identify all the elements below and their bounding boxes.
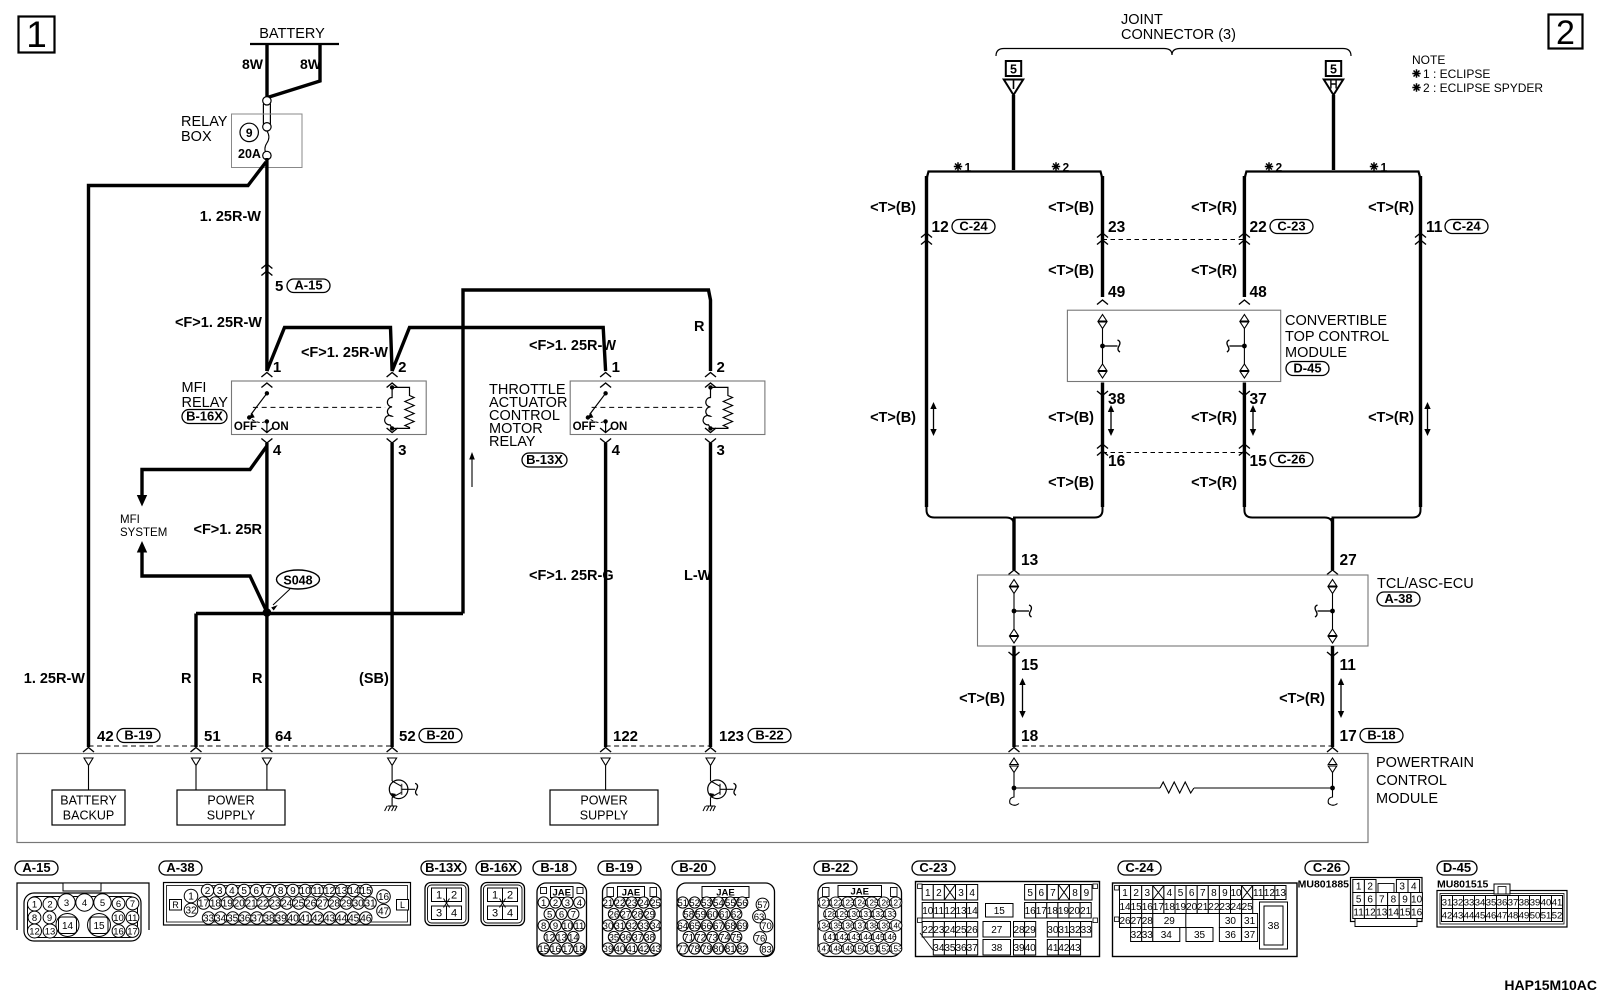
svg-text:C-24: C-24 xyxy=(1125,860,1154,875)
svg-text:25: 25 xyxy=(1242,902,1254,913)
svg-text:52: 52 xyxy=(1552,910,1563,921)
svg-text:5: 5 xyxy=(1010,63,1017,77)
svg-text:3: 3 xyxy=(1144,888,1150,899)
svg-text:2 : ECLIPSE SPYDER: 2 : ECLIPSE SPYDER xyxy=(1423,81,1543,95)
connector pill D-45 (strip) xyxy=(1437,861,1477,875)
wire pin 52 drop (MFI pin3) xyxy=(390,443,393,747)
svg-text:41: 41 xyxy=(1047,943,1059,954)
svg-text:<T>(R): <T>(R) xyxy=(1368,200,1414,216)
svg-text:46: 46 xyxy=(360,914,372,925)
svg-text:<T>(B): <T>(B) xyxy=(1048,410,1094,426)
svg-text:38: 38 xyxy=(263,914,275,925)
svg-text:L-W: L-W xyxy=(684,568,712,584)
svg-text:40: 40 xyxy=(1541,897,1552,908)
svg-text:13: 13 xyxy=(955,906,967,917)
wire main feed fuse to MFI relay pin 1 xyxy=(265,158,268,371)
svg-text:17: 17 xyxy=(562,944,573,955)
svg-text:3: 3 xyxy=(436,908,442,920)
svg-text:4: 4 xyxy=(612,442,621,459)
module terminal triangle x=88.5 xyxy=(84,758,93,766)
svg-text:<F>1. 25R-W: <F>1. 25R-W xyxy=(301,345,388,361)
svg-text:10: 10 xyxy=(1411,895,1423,906)
terminal mark pin x=710.5 xyxy=(705,748,716,753)
svg-text:2: 2 xyxy=(936,888,942,899)
svg-text:14: 14 xyxy=(348,886,360,897)
svg-text:2: 2 xyxy=(1276,161,1283,175)
svg-text:24: 24 xyxy=(638,898,649,909)
svg-text:4: 4 xyxy=(577,898,582,909)
svg-text:77: 77 xyxy=(677,944,688,955)
svg-text:RELAY: RELAY xyxy=(181,114,228,130)
svg-text:26: 26 xyxy=(967,925,979,936)
svg-text:33: 33 xyxy=(638,921,649,932)
TCL internal left xyxy=(1010,580,1019,587)
connector pill D-45 xyxy=(1286,362,1329,376)
svg-text:<F>1. 25R-G: <F>1. 25R-G xyxy=(529,568,614,584)
svg-text:6: 6 xyxy=(254,886,260,897)
svg-text:41: 41 xyxy=(1552,897,1563,908)
svg-text:8W: 8W xyxy=(242,56,264,72)
connector B-22 pinout xyxy=(818,883,902,957)
svg-text:R: R xyxy=(694,319,705,335)
svg-text:36: 36 xyxy=(1225,930,1237,941)
connector dashed line B-22 xyxy=(606,745,711,747)
svg-text:17: 17 xyxy=(1153,902,1165,913)
terminal mark pin x=196 xyxy=(191,748,202,753)
svg-text:BATTERY: BATTERY xyxy=(60,794,117,808)
svg-text:9: 9 xyxy=(1402,895,1408,906)
svg-text:5: 5 xyxy=(275,278,283,295)
svg-text:8: 8 xyxy=(278,886,284,897)
svg-text:2: 2 xyxy=(717,359,725,376)
sheet number 1 box xyxy=(19,17,55,53)
svg-text:13: 13 xyxy=(45,926,56,937)
svg-text:ON: ON xyxy=(271,421,288,433)
svg-text:67: 67 xyxy=(713,921,724,932)
svg-text:3: 3 xyxy=(492,908,498,920)
PCM terminal triangles x=1014.0 xyxy=(1010,758,1019,765)
svg-text:1: 1 xyxy=(541,898,546,909)
joint connector stub left xyxy=(1012,95,1015,170)
module terminal mark pin49 xyxy=(1097,300,1108,305)
svg-text:SYSTEM: SYSTEM xyxy=(120,527,167,539)
svg-text:MU801515: MU801515 xyxy=(1437,879,1489,891)
wire pin 123 drop (throttle pin3) xyxy=(709,443,712,747)
svg-text:53: 53 xyxy=(701,898,712,909)
svg-text:57: 57 xyxy=(757,900,768,911)
wire pin 51 drop xyxy=(194,614,197,748)
module terminal triangle x=605.6 xyxy=(601,758,610,766)
splice S048 callout xyxy=(277,570,320,589)
svg-text:1: 1 xyxy=(1356,882,1362,893)
svg-text:39: 39 xyxy=(276,914,288,925)
svg-text:B-13X: B-13X xyxy=(526,452,563,467)
branch bar right xyxy=(1244,172,1420,180)
svg-text:39: 39 xyxy=(1530,897,1541,908)
svg-text:23: 23 xyxy=(1219,902,1231,913)
svg-text:7: 7 xyxy=(266,886,272,897)
svg-text:15: 15 xyxy=(1250,453,1268,470)
svg-text:28: 28 xyxy=(1013,925,1025,936)
svg-text:47: 47 xyxy=(378,907,390,918)
svg-text:15: 15 xyxy=(93,921,105,932)
svg-text:B-22: B-22 xyxy=(821,860,849,875)
relay B-13X (throttle actuator control motor relay) xyxy=(570,381,765,435)
svg-text:B-19: B-19 xyxy=(605,860,633,875)
connector pill B-16X xyxy=(182,410,227,424)
svg-text:1: 1 xyxy=(965,161,972,175)
TCL/ASC-ECU box xyxy=(978,575,1369,646)
svg-text:MU801885: MU801885 xyxy=(1298,879,1350,891)
svg-text:78: 78 xyxy=(689,944,700,955)
svg-text:26: 26 xyxy=(609,909,620,920)
svg-text:28: 28 xyxy=(632,909,643,920)
svg-text:27: 27 xyxy=(1131,916,1143,927)
connector pill A-15 xyxy=(287,279,330,293)
svg-text:B-18: B-18 xyxy=(540,860,568,875)
battery backup block xyxy=(88,766,90,790)
svg-text:22: 22 xyxy=(922,925,934,936)
svg-text:<T>(B): <T>(B) xyxy=(870,200,916,216)
svg-text:38: 38 xyxy=(1268,920,1280,932)
connector pill C-26 xyxy=(1270,453,1313,467)
svg-text:SUPPLY: SUPPLY xyxy=(207,809,256,823)
svg-text:10: 10 xyxy=(562,921,573,932)
TCL internal right xyxy=(1328,580,1337,587)
svg-text:45: 45 xyxy=(348,914,360,925)
svg-text:A-15: A-15 xyxy=(22,860,50,875)
svg-text:1: 1 xyxy=(436,890,442,902)
terminal mark pin x=88.5 xyxy=(83,748,94,753)
svg-text:34: 34 xyxy=(1475,897,1486,908)
svg-text:2: 2 xyxy=(47,899,52,910)
svg-text:60: 60 xyxy=(707,909,718,920)
svg-text:51: 51 xyxy=(677,898,688,909)
svg-text:R: R xyxy=(252,671,263,687)
connector pill B-16X (strip) xyxy=(476,861,521,875)
svg-text:<T>(R): <T>(R) xyxy=(1191,263,1237,279)
wire MFI pin2 to throttle relay pin1 xyxy=(392,328,605,372)
svg-text:POWER: POWER xyxy=(207,794,254,808)
svg-text:4: 4 xyxy=(507,908,513,920)
sheet number 2 box xyxy=(1549,15,1583,49)
svg-text:75: 75 xyxy=(731,932,742,943)
module terminal triangle x=196 xyxy=(192,758,201,766)
PCM coil hook left xyxy=(1010,788,1019,805)
svg-text:CONTROL: CONTROL xyxy=(1376,773,1447,789)
connector dashed line B-18 xyxy=(1014,745,1333,747)
svg-text:40: 40 xyxy=(615,944,626,955)
terminal mark pin17 xyxy=(1327,748,1338,753)
svg-text:35: 35 xyxy=(609,932,620,943)
svg-text:19: 19 xyxy=(222,899,234,910)
svg-text:9: 9 xyxy=(1084,888,1090,899)
joint connector brace xyxy=(996,49,1351,57)
svg-text:32: 32 xyxy=(1069,925,1081,936)
svg-text:CONNECTOR (3): CONNECTOR (3) xyxy=(1121,27,1236,43)
svg-text:C-23: C-23 xyxy=(1277,218,1305,233)
svg-text:POWER: POWER xyxy=(580,794,627,808)
svg-text:6: 6 xyxy=(1189,888,1195,899)
connector pill C-24 (pin12) xyxy=(952,220,995,234)
svg-text:HAP15M10AC: HAP15M10AC xyxy=(1504,977,1597,993)
svg-text:2: 2 xyxy=(553,898,558,909)
terminal mark pin11b xyxy=(1327,652,1338,657)
PCM coil hook right xyxy=(1328,788,1337,805)
svg-text:50: 50 xyxy=(1530,910,1541,921)
svg-text:48: 48 xyxy=(1508,910,1519,921)
svg-text:32: 32 xyxy=(1453,897,1464,908)
svg-text:<T>(B): <T>(B) xyxy=(1048,475,1094,491)
svg-text:MFI: MFI xyxy=(120,514,140,526)
svg-text:<F>1. 25R: <F>1. 25R xyxy=(193,522,262,538)
svg-text:27: 27 xyxy=(621,909,632,920)
wire pin11-17 xyxy=(1331,646,1334,747)
svg-text:27: 27 xyxy=(991,925,1003,936)
svg-text:26: 26 xyxy=(305,899,317,910)
svg-text:22: 22 xyxy=(1250,219,1267,236)
svg-text:<T>(R): <T>(R) xyxy=(1191,410,1237,426)
joint connector stub right xyxy=(1332,95,1335,170)
svg-text:30: 30 xyxy=(353,899,365,910)
svg-text:6: 6 xyxy=(1038,888,1044,899)
svg-text:11: 11 xyxy=(1253,888,1264,899)
svg-text:<T>(B): <T>(B) xyxy=(1048,200,1094,216)
svg-text:44: 44 xyxy=(336,914,348,925)
svg-text:<T>(R): <T>(R) xyxy=(1368,410,1414,426)
svg-text:14: 14 xyxy=(1388,908,1400,919)
fuse 9 20A xyxy=(240,123,258,141)
svg-text:48: 48 xyxy=(1250,284,1268,301)
svg-text:20: 20 xyxy=(1186,902,1198,913)
svg-text:BACKUP: BACKUP xyxy=(63,809,114,823)
svg-text:ON: ON xyxy=(610,421,627,433)
svg-text:5: 5 xyxy=(1356,895,1362,906)
svg-text:B-20: B-20 xyxy=(679,860,707,875)
svg-text:7: 7 xyxy=(1050,888,1056,899)
wire spyder left <T>(B) xyxy=(1101,176,1104,297)
svg-text:4: 4 xyxy=(451,908,457,920)
svg-text:33: 33 xyxy=(1464,897,1475,908)
svg-text:47: 47 xyxy=(1497,910,1508,921)
svg-text:R: R xyxy=(172,900,179,910)
connector pill B-18 (strip) xyxy=(533,861,576,875)
svg-text:B-19: B-19 xyxy=(124,727,152,742)
svg-text:71: 71 xyxy=(683,932,694,943)
crossover mark pin15 xyxy=(1239,444,1250,449)
harness crossover mark xyxy=(261,264,272,269)
crossover mark x=1102.5 xyxy=(1097,233,1108,238)
svg-text:8W: 8W xyxy=(300,56,322,72)
svg-text:9: 9 xyxy=(1222,888,1228,899)
svg-text:40: 40 xyxy=(288,914,300,925)
transistor Q1 (pin 52 driver) xyxy=(391,766,393,781)
svg-text:123: 123 xyxy=(719,728,744,745)
svg-text:18: 18 xyxy=(210,899,222,910)
connector A-38 pinout xyxy=(164,883,411,926)
svg-text:42: 42 xyxy=(1442,910,1453,921)
svg-text:RELAY: RELAY xyxy=(489,434,536,450)
connector pill B-19 (strip) xyxy=(598,861,641,875)
svg-text:15: 15 xyxy=(538,944,549,955)
svg-text:64: 64 xyxy=(275,728,292,745)
svg-text:39: 39 xyxy=(1013,943,1025,954)
svg-text:49: 49 xyxy=(1519,910,1530,921)
svg-text:74: 74 xyxy=(719,932,730,943)
svg-text:12: 12 xyxy=(324,886,336,897)
wire eclipse left <T>(B) xyxy=(925,176,928,507)
svg-text:127: 127 xyxy=(889,899,903,908)
PCM terminal triangles x=1332.5 xyxy=(1328,758,1337,765)
svg-text:1: 1 xyxy=(1122,888,1128,899)
convertible top control module box xyxy=(1067,310,1280,381)
junction S048 xyxy=(263,608,272,617)
svg-text:70: 70 xyxy=(761,921,772,932)
svg-text:3: 3 xyxy=(217,886,223,897)
svg-text:15: 15 xyxy=(994,906,1006,917)
connector C-24 pinout xyxy=(1113,883,1298,957)
svg-text:9: 9 xyxy=(47,913,52,924)
svg-text:11: 11 xyxy=(934,906,945,917)
connector pill A-38 (TCL) xyxy=(1377,592,1420,606)
svg-text:1: 1 xyxy=(26,14,47,55)
svg-text:34: 34 xyxy=(1161,930,1173,941)
svg-text:42: 42 xyxy=(1058,943,1070,954)
svg-text:1: 1 xyxy=(32,899,37,910)
svg-text:37: 37 xyxy=(1250,391,1267,408)
updown arrow 4 xyxy=(1427,404,1429,434)
svg-text:1: 1 xyxy=(925,888,931,899)
svg-text:B-20: B-20 xyxy=(426,727,454,742)
svg-text:83: 83 xyxy=(761,944,772,955)
svg-text:16: 16 xyxy=(1025,906,1037,917)
svg-text:B-16X: B-16X xyxy=(186,408,223,423)
svg-text:38: 38 xyxy=(1519,897,1530,908)
svg-text:MODULE: MODULE xyxy=(1376,791,1438,807)
connector pill B-19 xyxy=(117,729,160,743)
powertrain control module box xyxy=(17,754,1368,843)
connector C-23 pinout xyxy=(916,882,1100,957)
svg-text:58: 58 xyxy=(683,909,694,920)
svg-text:<T>(R): <T>(R) xyxy=(1191,200,1237,216)
svg-text:3: 3 xyxy=(565,898,570,909)
relay B-16X (MFI relay) xyxy=(232,381,427,435)
wire pin 122 drop (throttle pin4) xyxy=(604,443,607,747)
svg-text:29: 29 xyxy=(1164,916,1176,927)
svg-text:20: 20 xyxy=(234,899,246,910)
svg-text:42: 42 xyxy=(97,728,114,745)
module terminal triangle x=392.1 xyxy=(388,758,397,766)
svg-text:23: 23 xyxy=(626,898,637,909)
svg-text:7: 7 xyxy=(571,909,576,920)
svg-text:6: 6 xyxy=(116,899,121,910)
svg-text:10: 10 xyxy=(1230,888,1242,899)
svg-text:122: 122 xyxy=(613,728,638,745)
svg-text:13: 13 xyxy=(556,932,567,943)
svg-text:17: 17 xyxy=(127,926,138,937)
crossover mark pin16 xyxy=(1097,444,1108,449)
connector pill C-24 (pin11) xyxy=(1445,220,1488,234)
convertible top module internal right xyxy=(1240,315,1249,322)
connector pill A-15 (strip) xyxy=(15,861,58,875)
svg-text:2: 2 xyxy=(1367,882,1373,893)
svg-text:JOINT: JOINT xyxy=(1121,12,1163,28)
svg-text:33: 33 xyxy=(203,914,215,925)
svg-text:33: 33 xyxy=(1142,930,1154,941)
wire S048 horizontal xyxy=(196,612,463,615)
svg-text:4: 4 xyxy=(1411,882,1417,893)
svg-text:23: 23 xyxy=(1108,219,1126,236)
svg-text:1: 1 xyxy=(273,359,281,376)
wire pin 64 drop xyxy=(265,612,268,747)
svg-text:<F>1. 25R-W: <F>1. 25R-W xyxy=(529,338,616,354)
wire MFI system feed upper xyxy=(142,446,267,497)
svg-text:14: 14 xyxy=(62,921,74,932)
svg-text:30: 30 xyxy=(603,921,614,932)
svg-text:51: 51 xyxy=(204,728,221,745)
merge bracket right xyxy=(1244,505,1420,525)
svg-text:35: 35 xyxy=(1486,897,1497,908)
terminal mark pin x=392.1 xyxy=(387,748,398,753)
svg-text:146: 146 xyxy=(883,933,897,942)
svg-text:4: 4 xyxy=(969,888,975,899)
svg-text:18: 18 xyxy=(574,944,585,955)
svg-text:82: 82 xyxy=(737,944,748,955)
svg-text:22: 22 xyxy=(1208,902,1220,913)
svg-text:R: R xyxy=(181,671,192,687)
svg-text:4: 4 xyxy=(1167,888,1173,899)
svg-text:62: 62 xyxy=(731,909,742,920)
module terminal triangle x=710.5 xyxy=(706,758,715,766)
svg-text:35: 35 xyxy=(944,943,956,954)
svg-text:17: 17 xyxy=(1340,728,1357,745)
svg-text:1 : ECLIPSE: 1 : ECLIPSE xyxy=(1423,67,1490,81)
svg-text:8: 8 xyxy=(1391,895,1397,906)
svg-text:3: 3 xyxy=(1399,882,1405,893)
svg-text:18: 18 xyxy=(1164,902,1176,913)
connector B-20 pinout xyxy=(677,883,775,957)
svg-text:8: 8 xyxy=(1211,888,1217,899)
svg-text:34: 34 xyxy=(933,943,945,954)
svg-text:80: 80 xyxy=(713,944,724,955)
svg-text:23: 23 xyxy=(933,925,945,936)
svg-text:14: 14 xyxy=(967,906,979,917)
svg-text:34: 34 xyxy=(650,921,661,932)
connector pill B-20 xyxy=(419,729,462,743)
svg-text:19: 19 xyxy=(1058,906,1070,917)
wire R from junction to throttle relay pin2 xyxy=(463,290,711,614)
terminal mark pin x=605.6 xyxy=(600,748,611,753)
svg-text:NOTE: NOTE xyxy=(1412,53,1445,67)
svg-text:13: 13 xyxy=(1021,552,1039,569)
svg-text:9: 9 xyxy=(553,921,558,932)
inline connector dashed 16-15 xyxy=(1103,452,1245,454)
svg-text:21: 21 xyxy=(603,898,614,909)
connector pill C-24 (strip) xyxy=(1118,861,1161,875)
power supply block 2 xyxy=(605,766,607,790)
svg-text:12: 12 xyxy=(544,932,555,943)
svg-text:5: 5 xyxy=(1178,888,1184,899)
svg-text:3: 3 xyxy=(717,442,725,459)
svg-text:B-13X: B-13X xyxy=(425,860,462,875)
svg-text:28: 28 xyxy=(1142,916,1154,927)
svg-text:<T>(B): <T>(B) xyxy=(1048,263,1094,279)
svg-text:36: 36 xyxy=(1497,897,1508,908)
svg-text:29: 29 xyxy=(1025,925,1037,936)
wire MFI system feed lower xyxy=(137,541,147,553)
terminal mark pin15b xyxy=(1009,652,1020,657)
svg-text:12: 12 xyxy=(1365,908,1377,919)
